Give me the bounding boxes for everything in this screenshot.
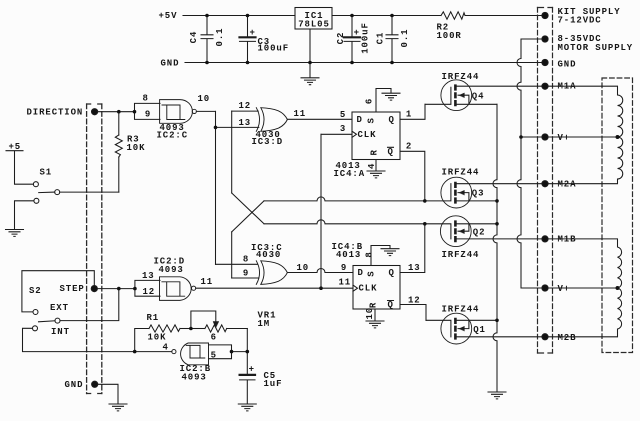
wire pin13 input from DIRECTION line [216, 126, 259, 128]
wire CLK pin3 horizontal [321, 133, 352, 135]
terminal M1B [542, 235, 577, 245]
svg-text:9: 9 [243, 269, 249, 279]
wire V+ tap winding 2 [548, 287, 617, 289]
node IC1 gnd [308, 61, 312, 65]
svg-text:3: 3 [340, 124, 346, 134]
svg-text:GND: GND [65, 380, 84, 390]
terminal 8-35VDC [542, 34, 633, 53]
terminal M2B [542, 333, 577, 343]
svg-text:4: 4 [163, 342, 169, 352]
wire M2A drain line [457, 183, 542, 185]
node gate56 [230, 350, 234, 354]
wire INT throw to oscillator output [23, 328, 135, 351]
pin 1 wire to Q4 gate [400, 104, 425, 119]
svg-text:9: 9 [341, 263, 347, 273]
nand gate IC2:C 4093 [135, 93, 211, 140]
svg-text:4: 4 [367, 163, 377, 169]
svg-text:4093: 4093 [159, 265, 184, 275]
node CLK join [319, 286, 323, 290]
svg-text:Q: Q [388, 147, 394, 157]
wire STEP to gate [97, 288, 134, 290]
svg-text:100uF: 100uF [360, 22, 370, 54]
pin 9 label (D input) [341, 263, 347, 273]
svg-text:100R: 100R [437, 31, 462, 41]
resistor R1 [135, 313, 191, 352]
svg-text:IC2:C: IC2:C [157, 131, 189, 141]
wire IC3:D output to D pin5 [287, 118, 352, 120]
svg-text:8: 8 [243, 255, 249, 265]
svg-text:13: 13 [239, 118, 252, 128]
svg-text:78L05: 78L05 [298, 20, 330, 30]
terminal GND [542, 59, 577, 69]
nand gate IC2:D 4093 [135, 256, 213, 300]
svg-text:D: D [357, 115, 363, 125]
wire DIRECTION signal vertical [215, 111, 217, 264]
svg-text:12: 12 [239, 101, 252, 111]
svg-text:GND: GND [558, 59, 577, 69]
svg-text:6: 6 [365, 98, 375, 104]
svg-text:10: 10 [365, 307, 375, 320]
svg-text:+5V: +5V [159, 11, 178, 21]
pin 12 wire to Q1 gate [400, 296, 426, 321]
svg-text:+: + [249, 28, 255, 38]
node coil tap 2 [616, 286, 620, 290]
wire CLK vertical [320, 134, 322, 288]
svg-text:IRFZ44: IRFZ44 [442, 250, 480, 260]
transistor Q3 IRFZ44 [425, 167, 497, 208]
node GND terminal bottom left [65, 380, 98, 390]
motor winding V+-M2B coil [548, 288, 621, 337]
wire +5V rail [183, 15, 542, 17]
node pin13 tap [214, 126, 218, 130]
transistor Q2 IRFZ44 [425, 216, 497, 260]
svg-text:IRFZ44: IRFZ44 [442, 72, 480, 82]
ground below IC1 [301, 63, 319, 85]
node V+ bus tap [519, 135, 523, 139]
node direction R3 [117, 110, 121, 114]
node DIRECTION terminal [27, 108, 98, 118]
wire S1 lower throw to ground [15, 201, 34, 230]
node STEP terminal [60, 284, 98, 294]
terminal strip dashed border [538, 8, 553, 354]
terminal V+ upper [542, 133, 570, 143]
svg-text:M2B: M2B [558, 333, 577, 343]
svg-text:1: 1 [406, 110, 412, 120]
regulator IC1 78L05 [295, 8, 332, 63]
wire source bus with hops [493, 104, 497, 392]
wire crossover left vertical lower [231, 232, 233, 278]
svg-text:5: 5 [211, 350, 217, 360]
node Q1 source [495, 319, 499, 323]
svg-text:11: 11 [339, 278, 352, 288]
svg-text:Q3: Q3 [472, 189, 485, 199]
svg-text:C1: C1 [376, 32, 386, 45]
svg-text:Q: Q [389, 268, 395, 278]
svg-text:2: 2 [406, 142, 412, 152]
svg-text:V+: V+ [558, 284, 571, 294]
terminal M1A [542, 82, 577, 92]
wire IC2:B output to node [135, 351, 172, 353]
node coil tap 1 [616, 135, 620, 139]
terminal M2A [542, 180, 577, 190]
node C1 top [390, 14, 394, 18]
wire crossover diagonal B [232, 201, 264, 232]
node direction gate [133, 110, 137, 114]
node C2 gnd [350, 61, 354, 65]
wire IC3:C output to D pin9 with hop [287, 269, 353, 273]
node C1 gnd [390, 61, 394, 65]
wire M1B drain line [457, 238, 542, 240]
wire M2B drain line [457, 336, 542, 338]
svg-text:Q: Q [388, 300, 394, 310]
svg-text:100uF: 100uF [258, 43, 290, 53]
ground below S1 [6, 230, 24, 237]
node step S2 [117, 287, 121, 291]
capacitor C1 [376, 16, 411, 63]
wire crossover bottom horizontal with hop [264, 220, 425, 224]
node C4 top [205, 14, 209, 18]
svg-text:R: R [370, 149, 380, 155]
motor dashed box [602, 78, 633, 353]
svg-text:11: 11 [294, 109, 307, 119]
svg-text:C4: C4 [189, 31, 199, 44]
svg-text:Q1: Q1 [473, 325, 486, 335]
svg-text:13: 13 [142, 271, 155, 281]
node C3 gnd [246, 61, 250, 65]
svg-text:EXT: EXT [50, 303, 69, 313]
pin 3 label [340, 124, 346, 134]
svg-text:10K: 10K [148, 332, 167, 342]
wire step line to CLK pin 11 [196, 287, 353, 289]
node R1 VR1 [189, 327, 193, 331]
svg-text:S2: S2 [29, 286, 42, 296]
svg-text:M2A: M2A [558, 180, 577, 190]
svg-text:MOTOR SUPPLY: MOTOR SUPPLY [558, 43, 634, 53]
node Q3 gate [423, 199, 427, 203]
svg-text:0.1: 0.1 [400, 29, 410, 48]
wire V+ bus with hops [517, 39, 542, 288]
pin 10 and ground below IC4:B [365, 307, 384, 328]
svg-text:IC3:D: IC3:D [252, 137, 284, 147]
wire crossover left vertical upper [231, 111, 233, 193]
svg-text:11: 11 [201, 277, 214, 287]
node osc out [133, 350, 137, 354]
svg-text:GND: GND [161, 59, 180, 69]
node C4 gnd [205, 61, 209, 65]
svg-text:4013: 4013 [336, 250, 361, 260]
svg-text:12: 12 [408, 296, 421, 306]
PCB edge dashed lines [87, 104, 102, 394]
node Q2 source [495, 222, 499, 226]
svg-text:+: + [249, 365, 255, 375]
power +5 symbol [6, 142, 33, 184]
svg-text:R1: R1 [147, 313, 160, 323]
svg-text:CLK: CLK [358, 130, 377, 140]
node step gate [133, 287, 137, 291]
svg-text:INT: INT [51, 327, 70, 337]
svg-text:10: 10 [297, 263, 310, 273]
ground below C5 [238, 404, 256, 411]
node C2 top [350, 14, 354, 18]
svg-text:12: 12 [143, 287, 156, 297]
svg-text:6: 6 [211, 332, 217, 342]
svg-text:1uF: 1uF [264, 379, 283, 389]
svg-text:Q2: Q2 [473, 227, 486, 237]
svg-text:13: 13 [408, 263, 421, 273]
wire pin8 input from DIRECTION vertical [216, 263, 258, 265]
svg-text:8: 8 [364, 251, 374, 257]
pin 5 label and wire (D input) [340, 110, 346, 120]
svg-text:STEP: STEP [60, 284, 85, 294]
ground below GND terminal [109, 404, 127, 411]
switch S1 [33, 167, 118, 203]
pin 13 wire to Q2 gate [400, 224, 425, 273]
svg-text:IRFZ44: IRFZ44 [442, 304, 480, 314]
wire DIRECTION to gate [98, 111, 135, 113]
resistor R2 [437, 12, 466, 41]
switch S2 [29, 286, 119, 337]
capacitor C2 [336, 16, 371, 63]
node C3 top [246, 14, 250, 18]
flip-flop IC4:A 4013 [334, 112, 401, 179]
svg-text:0.1: 0.1 [215, 28, 225, 47]
pin 4 and ground below IC4:A [367, 160, 385, 178]
wire VR1 to C5 node [246, 329, 248, 352]
xor gate IC3:D 4030 [239, 101, 307, 147]
svg-text:M1B: M1B [558, 235, 577, 245]
wire GND terminal to ground [98, 384, 118, 404]
resistor R3 [115, 112, 145, 192]
node Q2 gate [423, 222, 427, 226]
svg-text:8: 8 [143, 93, 149, 103]
terminal KIT SUPPLY [542, 7, 621, 25]
motor winding M1A-V+ coil [548, 86, 623, 137]
node +5V label [159, 11, 178, 21]
node Q3 source [495, 199, 499, 203]
wire pin9 input [232, 277, 259, 279]
wire STEP up-over to EXT throw [22, 271, 94, 312]
wire GND rail [185, 62, 542, 64]
svg-text:+: + [354, 28, 360, 38]
ground at source bus bottom [488, 392, 506, 399]
wire crossover diagonal A [232, 193, 264, 224]
svg-text:S: S [367, 117, 377, 123]
svg-text:DIRECTION: DIRECTION [27, 108, 84, 118]
transistor Q1 IRFZ44 [426, 304, 497, 344]
svg-text:IRFZ44: IRFZ44 [442, 167, 480, 177]
svg-text:9: 9 [145, 110, 151, 120]
wire V+ tap winding 1 [548, 136, 617, 138]
svg-text:5: 5 [340, 110, 346, 120]
pin 6 and ground above IC4:A [365, 89, 401, 113]
xor gate IC3:C 4030 [243, 243, 309, 285]
svg-text:S: S [367, 270, 377, 276]
svg-text:Q: Q [389, 115, 395, 125]
svg-text:C2: C2 [336, 32, 346, 45]
svg-text:10K: 10K [127, 143, 146, 153]
motor winding M1B-V+ coil [548, 239, 621, 288]
wire crossover top horizontal with hop [264, 197, 425, 201]
svg-text:D: D [358, 268, 364, 278]
transistor Q4 IRFZ44 [425, 72, 497, 111]
wire IC2:C output [196, 110, 215, 112]
capacitor C3 [240, 16, 290, 63]
svg-text:IC4:A: IC4:A [334, 169, 366, 179]
wire V+ tap upper [521, 136, 542, 138]
svg-text:10: 10 [198, 94, 211, 104]
nand gate IC2:B 4093 (mirrored) [163, 332, 248, 382]
node GND label [161, 59, 180, 69]
svg-text:4030: 4030 [256, 250, 281, 260]
svg-text:CLK: CLK [359, 284, 378, 294]
capacitor C5 [240, 352, 283, 404]
node C5 top [246, 350, 250, 354]
terminal V+ lower [542, 284, 570, 294]
wire pin12 input [232, 110, 259, 112]
flip-flop IC4:B 4013 [332, 242, 401, 310]
pin 8 and ground above IC4:B [364, 246, 399, 266]
svg-text:Q4: Q4 [472, 91, 485, 101]
svg-text:S1: S1 [40, 167, 53, 177]
svg-text:7-12VDC: 7-12VDC [558, 15, 602, 25]
potentiometer VR1 [191, 311, 277, 332]
pin 2 wire to Q3 gate [400, 142, 425, 201]
capacitor C4 [189, 16, 225, 63]
pin 11 label (CLK) [339, 278, 352, 288]
wire M1A drain line [457, 85, 542, 87]
motor winding V+-M2A coil [548, 137, 623, 184]
svg-text:V+: V+ [558, 133, 571, 143]
svg-text:4093: 4093 [182, 373, 207, 383]
svg-text:1M: 1M [258, 319, 271, 329]
